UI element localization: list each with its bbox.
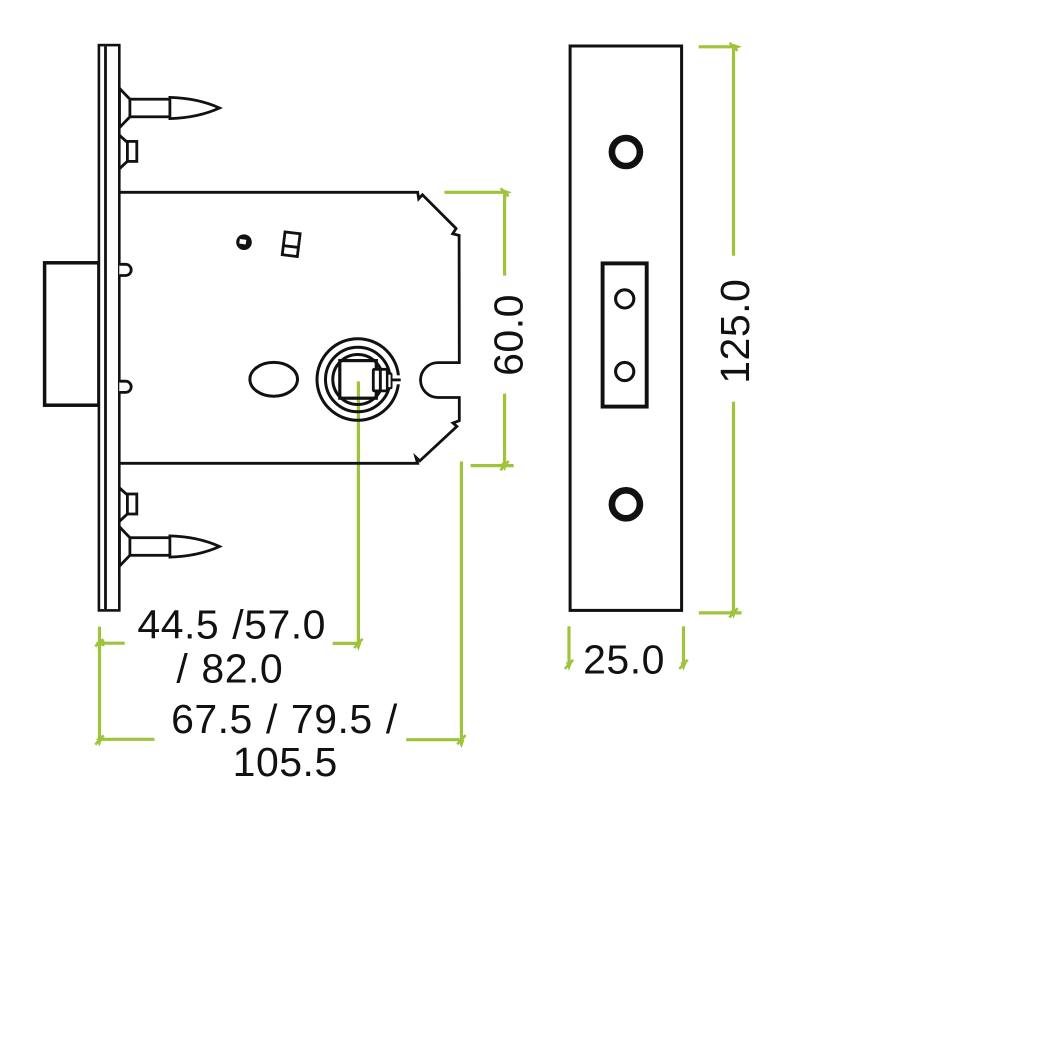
dimension 125.0 line upper segment <box>732 47 735 256</box>
svg-text:105.5: 105.5 <box>233 739 338 785</box>
latch bolt <box>45 263 99 405</box>
oval hole <box>250 362 298 396</box>
dimension 125.0 top extension line <box>699 45 734 48</box>
top screw shaft <box>130 99 170 117</box>
dimension 60.0 line upper segment <box>503 192 506 275</box>
top screw tip <box>170 97 220 118</box>
follower clip <box>372 368 389 392</box>
top screw head <box>120 88 130 127</box>
follower spindle line <box>390 378 401 381</box>
case rivet tab bottom <box>119 381 131 392</box>
lock case body outline <box>119 192 459 463</box>
cutout hole top <box>616 290 634 308</box>
follower inner circle <box>333 355 383 405</box>
follower square hole <box>340 361 377 399</box>
pin (filled circle) <box>236 234 252 250</box>
svg-text:67.5 / 79.5 /: 67.5 / 79.5 / <box>171 696 398 742</box>
bottom screw head <box>120 527 130 566</box>
dimension 60.0 bottom arrow <box>502 463 508 472</box>
dimension 125.0 bottom arrow <box>730 610 736 619</box>
spindle dimension right tick <box>333 642 360 645</box>
small box component <box>282 232 300 257</box>
follower middle circle <box>326 347 391 412</box>
dimension 25.0 left arrow line <box>567 626 570 664</box>
case depth dimension vertical line <box>460 462 463 742</box>
faceplate front view <box>570 46 682 610</box>
case rivet tab top <box>119 264 131 275</box>
svg-text:25.0: 25.0 <box>583 636 665 682</box>
svg-text:44.5 /57.0: 44.5 /57.0 <box>137 602 326 648</box>
dimension 125.0 top arrow <box>733 44 742 50</box>
bottom screw hole <box>612 490 640 518</box>
dimension 60.0 top arrow <box>503 189 512 195</box>
dimension 60.0 line lower segment <box>503 394 506 465</box>
spindle centre dimension vertical line <box>357 381 360 644</box>
faceplate side view <box>99 45 119 610</box>
dimension 125.0 bottom extension line <box>699 611 742 614</box>
case depth dimension left tick <box>100 738 154 741</box>
svg-text:125.0: 125.0 <box>712 279 758 384</box>
left extension line <box>98 627 101 740</box>
dimension 60.0 top extension line <box>444 191 505 194</box>
spindle dimension down arrow <box>355 642 361 651</box>
spindle dimension left arrow <box>95 640 104 646</box>
svg-text:/ 82.0: / 82.0 <box>176 645 283 691</box>
svg-text:60.0: 60.0 <box>485 294 531 376</box>
top fixing lug <box>120 135 128 168</box>
case depth dimension right tick <box>406 738 459 741</box>
bottom screw shaft <box>130 538 170 556</box>
follower white gap <box>383 375 404 384</box>
bottom screw tip <box>170 536 220 557</box>
top screw hole <box>612 138 640 166</box>
spindle dimension left tick <box>97 642 125 645</box>
faceplate inner line <box>104 46 107 609</box>
latch cutout <box>603 263 647 406</box>
dimension 125.0 line lower segment <box>732 402 735 613</box>
bottom fixing lug <box>120 488 128 521</box>
case depth dimension down arrow <box>458 740 464 749</box>
dimension 25.0 right arrow line <box>682 626 685 664</box>
follower outer circle <box>317 339 399 421</box>
dimension 60.0 bottom extension line <box>471 464 514 467</box>
case depth dimension left down arrow <box>96 739 102 747</box>
cutout hole bottom <box>616 362 634 380</box>
